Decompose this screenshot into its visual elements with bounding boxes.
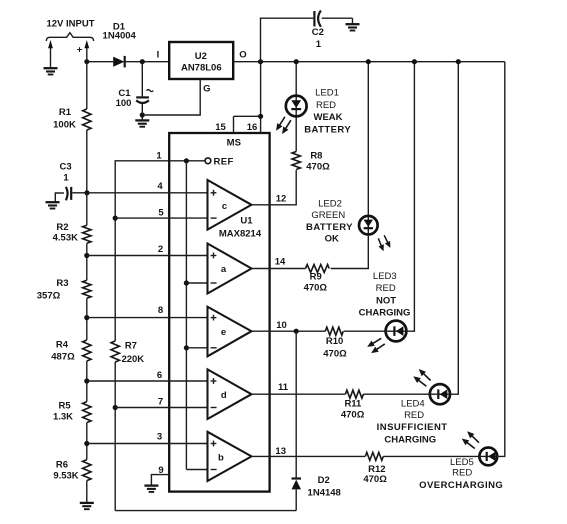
comparator e — [208, 307, 252, 357]
comparator a — [208, 244, 252, 294]
svg-text:16: 16 — [247, 122, 258, 133]
svg-text:CHARGING: CHARGING — [384, 434, 436, 445]
LED2 — [359, 216, 378, 235]
svg-text:R2: R2 — [56, 222, 68, 233]
svg-text:LED1: LED1 — [315, 87, 339, 98]
wire pin6 — [87, 380, 208, 382]
LED1 — [286, 96, 307, 117]
resistor R3 — [83, 280, 91, 298]
svg-text:7: 7 — [158, 396, 163, 407]
svg-text:470Ω: 470Ω — [341, 410, 365, 421]
svg-text:d: d — [221, 390, 227, 401]
node pin8 — [84, 315, 89, 320]
ground at 12V input — [44, 68, 58, 74]
svg-text:R11: R11 — [344, 398, 362, 409]
svg-text:CHARGING: CHARGING — [359, 308, 411, 319]
wire C2 branch — [261, 18, 314, 62]
wire pin12 output — [252, 170, 297, 205]
ground at C2 — [346, 24, 360, 30]
wire R11 to LED4 — [363, 393, 429, 395]
svg-text:RED: RED — [316, 100, 336, 111]
node pin6 — [84, 378, 89, 383]
wire LED3 to rail — [407, 62, 415, 332]
wire R4 to pin6 node — [86, 361, 88, 402]
wire R2 to pin2 node — [86, 243, 88, 280]
svg-text:357Ω: 357Ω — [37, 290, 61, 301]
ground at R6 — [80, 503, 94, 509]
node at + input — [84, 59, 89, 64]
svg-text:LED2: LED2 — [318, 198, 342, 209]
svg-text:WEAK: WEAK — [313, 112, 342, 123]
node pin2 — [84, 253, 89, 258]
diode D1 — [113, 57, 124, 67]
svg-text:LED3: LED3 — [373, 271, 397, 282]
wire top rail right of U2 — [233, 61, 505, 63]
svg-text:220K: 220K — [121, 354, 144, 365]
svg-text:5: 5 — [158, 207, 164, 218]
svg-text:b: b — [218, 452, 224, 463]
node pin3 — [84, 441, 89, 446]
bottom wire to D2 — [115, 510, 296, 512]
input plus arrow — [86, 47, 88, 62]
svg-text:3: 3 — [157, 431, 162, 442]
svg-text:470Ω: 470Ω — [304, 283, 328, 294]
svg-text:R9: R9 — [310, 272, 322, 283]
comparator d — [208, 369, 252, 419]
wire pin14 output — [252, 268, 306, 270]
svg-text:15: 15 — [215, 122, 226, 133]
svg-text:BATTERY: BATTERY — [306, 222, 353, 233]
svg-text:NOT: NOT — [376, 296, 396, 307]
node LED4 rail — [456, 59, 461, 64]
svg-text:RED: RED — [376, 283, 396, 294]
svg-text:OK: OK — [325, 233, 339, 244]
wire pin3 — [87, 443, 208, 445]
node LED2 top — [366, 59, 371, 64]
capacitor C1 — [136, 96, 149, 98]
svg-text:R3: R3 — [56, 278, 68, 289]
node a minus — [184, 280, 189, 285]
svg-text:1.3K: 1.3K — [53, 411, 73, 422]
svg-text:LED5: LED5 — [450, 457, 474, 468]
resistor R6 — [83, 460, 91, 481]
svg-text:470Ω: 470Ω — [306, 161, 330, 172]
wire R3 to pin8 node — [86, 298, 88, 340]
svg-text:2: 2 — [158, 244, 163, 255]
wire R10 to LED3 — [344, 330, 386, 332]
ground at C1 — [135, 120, 149, 126]
resistor R5 — [83, 402, 91, 423]
svg-text:RED: RED — [452, 468, 472, 479]
svg-text:+: + — [77, 45, 83, 56]
wire top rail left — [87, 61, 113, 63]
svg-text:12: 12 — [276, 194, 287, 205]
svg-text:c: c — [222, 201, 227, 212]
wire R1 to C3 node — [86, 130, 88, 193]
wire pin10 output — [252, 330, 326, 332]
svg-text:1: 1 — [316, 39, 322, 50]
node LED3 rail — [412, 59, 417, 64]
wire U2 G to C1 ground node — [145, 79, 200, 115]
svg-text:6: 6 — [157, 370, 162, 381]
svg-text:4: 4 — [157, 181, 163, 192]
svg-text:14: 14 — [275, 257, 286, 268]
wire C3 node to R2 — [86, 193, 88, 226]
wire pin11 output — [252, 393, 346, 395]
LED3 — [386, 321, 407, 342]
svg-text:100: 100 — [116, 98, 132, 109]
svg-text:R1: R1 — [59, 107, 72, 118]
node pin10/D2 branch — [294, 329, 299, 334]
wire R9 to LED2 — [331, 236, 369, 269]
svg-text:10: 10 — [276, 320, 287, 331]
regulator U2 AN78L06 — [169, 42, 233, 79]
wire C1 lead — [141, 62, 143, 97]
wire a minus — [186, 282, 207, 284]
brace under 12V INPUT — [46, 33, 93, 41]
wire LED1 string — [295, 62, 297, 152]
wire LED4 to rail — [451, 62, 459, 395]
node pin5 — [113, 216, 118, 221]
wire pin2 — [87, 255, 208, 257]
wire R5 to pin3 node — [86, 423, 88, 460]
node e minus — [184, 345, 189, 350]
node pin16 tie — [258, 114, 263, 119]
svg-text:4.53K: 4.53K — [53, 233, 78, 244]
pin 15 lead — [233, 116, 235, 133]
svg-text:D2: D2 — [318, 475, 330, 486]
svg-text:AN78L06: AN78L06 — [181, 63, 222, 74]
node pin7 — [113, 405, 118, 410]
svg-text:8: 8 — [158, 305, 163, 316]
svg-text:INSUFFICIENT: INSUFFICIENT — [377, 422, 448, 433]
resistor R8 — [292, 152, 300, 170]
node D1/C1 — [140, 59, 145, 64]
wire C3 to ground — [55, 193, 60, 202]
wire e minus — [186, 347, 207, 349]
LED4 — [430, 384, 450, 404]
wire R7 to bottom wire — [114, 362, 116, 511]
node O/C2 branch — [258, 59, 263, 64]
svg-text:C2: C2 — [312, 27, 324, 38]
svg-text:470Ω: 470Ω — [363, 474, 387, 485]
wire R6 to ground — [86, 481, 88, 503]
svg-text:U1: U1 — [240, 215, 253, 226]
wire C2 to ground — [322, 17, 353, 19]
wire b minus — [186, 469, 207, 471]
internal REF line — [185, 161, 187, 470]
ground at C3 — [46, 202, 60, 208]
svg-text:R7: R7 — [125, 341, 137, 352]
comparator b — [208, 432, 252, 481]
resistor R11 — [345, 390, 363, 398]
wire D2 branch — [295, 331, 297, 478]
svg-text:GREEN: GREEN — [311, 210, 345, 221]
svg-text:a: a — [221, 264, 227, 275]
resistor R2 — [83, 225, 91, 243]
svg-text:R4: R4 — [56, 339, 69, 350]
wire pin7 — [115, 407, 207, 409]
wire pin13 output — [252, 455, 366, 457]
svg-text:R5: R5 — [59, 400, 72, 411]
wire REF rail (pin1/pin5/R7/pin7) — [115, 161, 205, 341]
resistor R10 — [325, 327, 343, 335]
diode D2 — [292, 477, 302, 479]
IC U1 box MAX8214 — [169, 133, 269, 492]
svg-text:e: e — [221, 327, 226, 338]
svg-text:100K: 100K — [53, 120, 76, 131]
svg-text:11: 11 — [278, 382, 289, 393]
wire R12 to LED5 — [383, 455, 478, 457]
pin 16 lead from top rail — [260, 62, 262, 133]
wire LED5 to rail — [499, 62, 505, 457]
svg-text:12V INPUT: 12V INPUT — [46, 19, 94, 30]
svg-text:O: O — [239, 50, 246, 61]
svg-text:BATTERY: BATTERY — [304, 124, 351, 135]
resistor R4 — [83, 340, 91, 361]
node C1/G — [140, 112, 145, 117]
wire D1 to U2 — [126, 61, 170, 63]
wire LED2 top — [367, 62, 369, 236]
svg-text:R8: R8 — [310, 150, 322, 161]
node C3/pin4 — [84, 190, 89, 195]
svg-text:MS: MS — [227, 137, 241, 148]
node REF branch — [184, 158, 189, 163]
resistor R7 — [111, 341, 119, 362]
svg-text:1: 1 — [156, 150, 162, 161]
resistor R12 — [365, 452, 383, 460]
svg-text:1N4004: 1N4004 — [103, 31, 137, 42]
LED5 — [479, 448, 497, 466]
svg-text:470Ω: 470Ω — [323, 348, 347, 359]
capacitor C2 — [313, 11, 315, 26]
svg-text:U2: U2 — [195, 51, 207, 62]
ground at pin9 — [144, 486, 158, 492]
svg-text:9.53K: 9.53K — [53, 470, 78, 481]
REF terminal circle — [205, 158, 211, 164]
wire C1 to ground node — [141, 104, 143, 121]
svg-text:R10: R10 — [326, 336, 343, 347]
svg-text:OVERCHARGING: OVERCHARGING — [419, 480, 503, 491]
svg-text:1: 1 — [63, 173, 69, 184]
wire pin5 — [115, 217, 207, 219]
wire pin8 — [87, 317, 208, 319]
resistor R1 — [83, 109, 91, 130]
svg-text:G: G — [203, 84, 210, 95]
pin9 wire to ground — [151, 475, 169, 486]
svg-text:1N4148: 1N4148 — [308, 487, 341, 498]
svg-text:487Ω: 487Ω — [51, 351, 75, 362]
svg-text:RED: RED — [404, 410, 424, 421]
comparator c — [208, 180, 252, 230]
node LED1 top — [294, 59, 299, 64]
capacitor C3 — [70, 187, 72, 200]
svg-text:C3: C3 — [60, 161, 72, 172]
svg-text:LED4: LED4 — [401, 399, 425, 410]
wire tie pins 15-16 — [234, 115, 261, 117]
svg-text:MAX8214: MAX8214 — [219, 228, 262, 239]
wire pin4 — [87, 192, 208, 194]
left rail x=86.8 segments — [86, 62, 88, 109]
svg-text:R6: R6 — [56, 459, 68, 470]
svg-text:REF: REF — [214, 156, 234, 167]
svg-text:I: I — [157, 50, 160, 61]
svg-text:13: 13 — [275, 446, 286, 457]
input minus arrow — [50, 47, 52, 69]
